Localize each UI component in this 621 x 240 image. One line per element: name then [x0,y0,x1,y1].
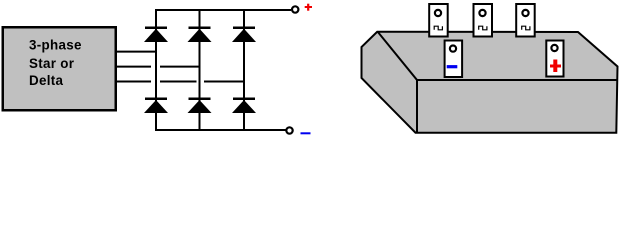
rectifier module body [362,32,618,133]
wire negative bottom rail [155,129,286,131]
diode D3 [232,27,256,43]
AC terminal 2 [474,4,493,37]
wire phase C [117,81,244,83]
AC terminal 1 [429,4,448,37]
diode D6 [232,98,256,114]
DC positive terminal block [546,41,563,77]
diode D2 [188,27,212,43]
3-phase source box [3,27,116,110]
svg-text:Delta: Delta [29,73,63,88]
svg-text:Star or: Star or [29,56,75,71]
terminal positive output [292,6,298,12]
diode D5 [188,98,212,114]
diode D1 [144,27,168,43]
DC negative terminal block [445,41,463,78]
wire positive top rail [155,9,291,11]
AC terminal 3 [516,4,535,37]
wire phase B [117,66,200,68]
wire leg 3 [243,9,245,131]
wire leg 2 [199,9,201,131]
wire phase A [117,51,156,53]
terminal negative output [286,127,292,133]
label - (blue) [301,132,311,134]
label + (red) [305,4,312,11]
wire leg 1 [155,9,157,131]
svg-text:3-phase: 3-phase [29,37,82,52]
diode D4 [144,98,168,114]
